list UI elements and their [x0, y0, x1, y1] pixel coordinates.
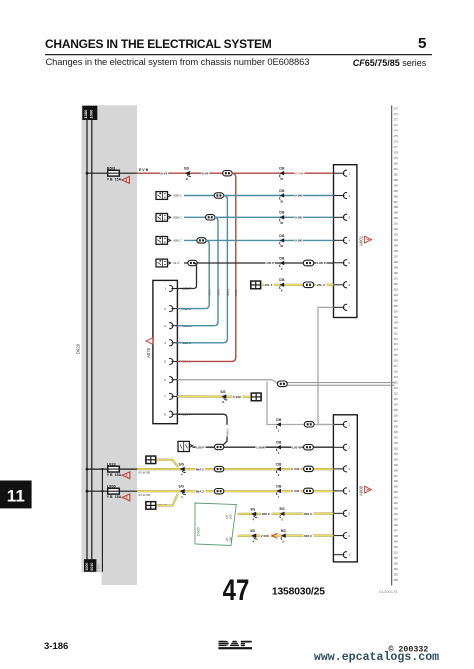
svg-text:288: 288	[394, 206, 399, 209]
svg-text:338: 338	[394, 480, 399, 483]
svg-text:318: 318	[394, 371, 399, 374]
svg-text:304: 304	[394, 294, 399, 297]
svg-text:6010: 6010	[90, 563, 94, 571]
svg-text:352: 352	[394, 557, 399, 560]
svg-text:25L Z: 25L Z	[265, 283, 273, 287]
svg-text:15A: 15A	[115, 495, 122, 499]
svg-text:00B C: 00B C	[173, 194, 182, 198]
svg-text:E111: E111	[234, 289, 238, 296]
svg-text:282: 282	[394, 173, 399, 176]
svg-text:35: 35	[280, 177, 284, 181]
svg-text:278: 278	[394, 151, 399, 154]
svg-text:C/B: C/B	[276, 462, 282, 466]
svg-text:15A: 15A	[115, 177, 122, 181]
svg-text:315: 315	[394, 354, 399, 357]
svg-text:346: 346	[394, 524, 399, 527]
svg-text:25L Z: 25L Z	[317, 283, 325, 287]
svg-text:80A 2: 80A 2	[196, 467, 204, 471]
svg-text:292: 292	[394, 228, 399, 231]
svg-text:301: 301	[394, 277, 399, 280]
svg-text:294: 294	[394, 239, 399, 242]
svg-text:5: 5	[418, 35, 427, 52]
svg-text:11: 11	[7, 487, 25, 506]
svg-text:L00 P: L00 P	[196, 445, 204, 449]
svg-text:299: 299	[394, 267, 399, 270]
svg-text:336: 336	[394, 469, 399, 472]
svg-text:E V B: E V B	[139, 168, 149, 172]
svg-text:1358030/25: 1358030/25	[272, 587, 325, 598]
svg-text:GL300178: GL300178	[379, 589, 398, 594]
svg-text:2 008: 2 008	[261, 534, 269, 538]
svg-text:30: 30	[280, 244, 284, 248]
svg-text:www.epcatalogs.com: www.epcatalogs.com	[314, 651, 439, 664]
svg-text:347: 347	[394, 530, 399, 533]
svg-text:355: 355	[394, 573, 399, 576]
svg-text:330: 330	[394, 436, 399, 439]
svg-text:D929: D929	[75, 343, 80, 354]
svg-text:354: 354	[394, 568, 399, 571]
svg-text:A001: A001	[358, 235, 363, 246]
svg-text:00 W 0B: 00 W 0B	[139, 471, 151, 475]
svg-text:349: 349	[394, 541, 399, 544]
svg-text:273: 273	[394, 124, 399, 127]
svg-text:332: 332	[394, 447, 399, 450]
svg-text:CF65/75/85 series: CF65/75/85 series	[353, 58, 427, 68]
svg-text:297: 297	[394, 256, 399, 259]
svg-text:CHANGES IN THE ELECTRICAL SYST: CHANGES IN THE ELECTRICAL SYSTEM	[45, 37, 272, 51]
svg-text:5 94Z: 5 94Z	[233, 395, 241, 399]
svg-text:279: 279	[394, 157, 399, 160]
svg-text:0 BK: 0 BK	[295, 216, 303, 220]
svg-text:272: 272	[394, 119, 399, 122]
svg-text:21 P: 21 P	[173, 261, 179, 265]
svg-text:309: 309	[394, 321, 399, 324]
svg-text:280: 280	[394, 162, 399, 165]
svg-text:C/B: C/B	[276, 418, 282, 422]
svg-text:340: 340	[394, 491, 399, 494]
svg-text:319: 319	[394, 376, 399, 379]
svg-text:9/S: 9/S	[250, 507, 255, 511]
svg-text:300: 300	[394, 272, 399, 275]
svg-text:2 101: 2 101	[96, 564, 100, 572]
svg-text:L00 W: L00 W	[292, 445, 301, 449]
svg-text:C/B: C/B	[279, 234, 285, 238]
svg-text:S/S: S/S	[220, 390, 225, 394]
svg-text:277: 277	[394, 146, 399, 149]
svg-text:284: 284	[394, 184, 399, 187]
svg-text:283: 283	[394, 179, 399, 182]
svg-text:321: 321	[394, 387, 399, 390]
svg-text:296: 296	[394, 250, 399, 253]
svg-text:334: 334	[394, 458, 399, 461]
svg-text:327: 327	[394, 420, 399, 423]
svg-text:800 C: 800 C	[304, 534, 313, 538]
svg-text:274: 274	[394, 130, 399, 133]
svg-text:322: 322	[394, 393, 399, 396]
svg-text:HB01: HB01	[225, 428, 229, 436]
svg-text:B: B	[222, 400, 224, 404]
svg-text:00B C: 00B C	[173, 216, 182, 220]
svg-text:30B1: 30B1	[226, 289, 230, 296]
svg-text:C/B: C/B	[279, 211, 285, 215]
svg-text:337: 337	[394, 475, 399, 478]
svg-text:324: 324	[394, 404, 399, 407]
svg-text:353: 353	[394, 562, 399, 565]
svg-text:C/B: C/B	[276, 484, 282, 488]
svg-text:326: 326	[394, 414, 399, 417]
svg-text:A000: A000	[358, 485, 363, 496]
svg-text:1000: 1000	[85, 563, 89, 571]
svg-text:356: 356	[394, 579, 399, 582]
svg-text:276: 276	[394, 140, 399, 143]
svg-text:317: 317	[394, 365, 399, 368]
svg-text:307: 307	[394, 310, 399, 313]
svg-text:302: 302	[394, 283, 399, 286]
svg-text:344: 344	[394, 513, 399, 516]
svg-text:C/B: C/B	[279, 189, 285, 193]
svg-text:C/B: C/B	[279, 256, 285, 260]
svg-text:80A 2: 80A 2	[196, 489, 204, 493]
svg-text:L0B P: L0B P	[317, 261, 326, 265]
svg-text:S/G: S/G	[179, 463, 185, 467]
svg-text:C/B: C/B	[279, 167, 285, 171]
svg-text:285: 285	[394, 190, 399, 193]
svg-text:295: 295	[394, 245, 399, 248]
svg-text:310: 310	[394, 327, 399, 330]
svg-text:C 04Z: C 04Z	[291, 489, 300, 493]
svg-text:298: 298	[394, 261, 399, 264]
svg-text:C/B: C/B	[279, 278, 285, 282]
svg-text:287: 287	[394, 201, 399, 204]
svg-text:0 BK: 0 BK	[295, 194, 303, 198]
svg-text:9/S: 9/S	[250, 529, 255, 533]
svg-text:30B2: 30B2	[216, 289, 220, 296]
svg-text:B 44: B 44	[202, 171, 209, 175]
svg-text:339: 339	[394, 486, 399, 489]
svg-text:342: 342	[394, 502, 399, 505]
svg-text:L0B P: L0B P	[266, 261, 275, 265]
svg-text:C 144: C 144	[295, 171, 304, 175]
svg-text:316: 316	[394, 360, 399, 363]
svg-text:270: 270	[394, 108, 399, 111]
svg-text:Y B: Y B	[107, 473, 113, 477]
svg-text:329: 329	[394, 431, 399, 434]
svg-text:30: 30	[280, 221, 284, 225]
svg-text:500: 500	[228, 537, 232, 542]
svg-text:314: 314	[394, 349, 399, 352]
svg-text:351: 351	[394, 551, 399, 554]
svg-text:B 44: B 44	[161, 171, 168, 175]
svg-text:500: 500	[228, 514, 232, 519]
svg-text:312: 312	[394, 338, 399, 341]
svg-text:350: 350	[394, 546, 399, 549]
svg-text:286: 286	[394, 195, 399, 198]
svg-text:Y B: Y B	[107, 495, 113, 499]
svg-text:328: 328	[394, 425, 399, 428]
svg-text:308: 308	[394, 316, 399, 319]
svg-text:L023: L023	[107, 462, 117, 467]
svg-text:345: 345	[394, 519, 399, 522]
svg-text:B/3: B/3	[280, 507, 285, 511]
svg-text:313: 313	[394, 343, 399, 346]
svg-text:333: 333	[394, 453, 399, 456]
svg-text:D900: D900	[197, 527, 201, 536]
svg-text:323: 323	[394, 398, 399, 401]
svg-text:348: 348	[394, 535, 399, 538]
svg-text:B5/3: B5/3	[107, 166, 116, 171]
svg-text:00 W 0B: 00 W 0B	[139, 493, 151, 497]
svg-text:271: 271	[394, 113, 399, 116]
svg-text:3-186: 3-186	[44, 641, 68, 652]
svg-text:Y B: Y B	[107, 177, 113, 181]
svg-text:281: 281	[394, 168, 399, 171]
svg-text:291: 291	[394, 223, 399, 226]
svg-text:293: 293	[394, 234, 399, 237]
svg-text:1 00W: 1 00W	[256, 445, 265, 449]
svg-text:B: B	[186, 177, 188, 181]
svg-text:341: 341	[394, 497, 399, 500]
svg-text:0 BK: 0 BK	[295, 239, 303, 243]
svg-text:Changes in the electrical syst: Changes in the electrical system from ch…	[46, 56, 310, 67]
svg-text:275: 275	[394, 135, 399, 138]
svg-text:290: 290	[394, 217, 399, 220]
svg-text:335: 335	[394, 464, 399, 467]
svg-text:343: 343	[394, 508, 399, 511]
svg-text:C 04Z: C 04Z	[291, 467, 300, 471]
svg-text:40B C: 40B C	[173, 239, 182, 243]
svg-text:303: 303	[394, 288, 399, 291]
svg-text:1000: 1000	[88, 109, 93, 119]
svg-text:A070: A070	[146, 347, 151, 358]
svg-text:S/G: S/G	[179, 485, 185, 489]
svg-text:15A: 15A	[115, 473, 122, 477]
svg-text:30: 30	[280, 199, 284, 203]
svg-text:800 C: 800 C	[262, 512, 271, 516]
svg-text:331: 331	[394, 442, 399, 445]
svg-text:B/3: B/3	[281, 529, 286, 533]
svg-text:325: 325	[394, 409, 399, 412]
svg-text:L000: L000	[107, 484, 116, 489]
svg-text:289: 289	[394, 212, 399, 215]
svg-text:311: 311	[394, 332, 399, 335]
svg-text:800 C: 800 C	[304, 512, 313, 516]
svg-text:S/S: S/S	[184, 167, 189, 171]
svg-text:30B3: 30B3	[208, 289, 212, 296]
svg-text:305: 305	[394, 299, 399, 302]
svg-text:C/B: C/B	[276, 441, 282, 445]
svg-text:306: 306	[394, 305, 399, 308]
svg-text:47: 47	[223, 573, 250, 607]
